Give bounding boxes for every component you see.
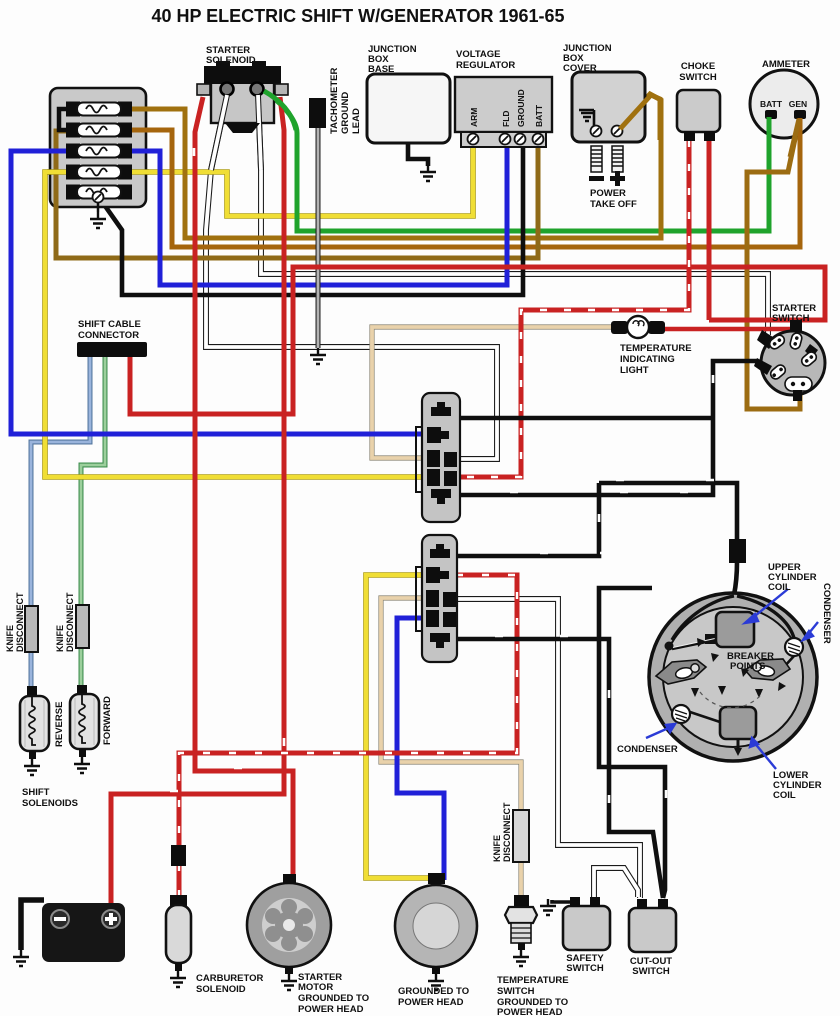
regulator terminal labels <box>469 89 544 127</box>
wire brown fuse2-right to ammeter GEN <box>131 116 800 247</box>
svg-text:SWITCH: SWITCH <box>566 963 604 974</box>
arrow to lower coil <box>753 741 776 769</box>
wire red choke switch right to starter switch <box>707 140 712 320</box>
connector C1 bracket <box>416 427 421 492</box>
starter solenoid top cap <box>204 66 281 84</box>
condenser left <box>690 712 720 722</box>
wire light green shift cable connector to forward solenoid <box>81 357 105 689</box>
svg-text:BASE: BASE <box>368 64 394 75</box>
power head motor stem and ground <box>432 966 440 974</box>
svg-text:BATT: BATT <box>534 104 544 127</box>
svg-text:POWER: POWER <box>590 188 626 199</box>
wire black safety switch to ground <box>552 900 574 902</box>
reverse solenoid coil <box>29 697 36 745</box>
C1 pin tan pair <box>427 450 440 467</box>
battery positive terminal <box>102 910 120 928</box>
starter solenoid right bolt <box>275 84 288 95</box>
svg-text:KNIFE: KNIFE <box>55 625 65 652</box>
svg-text:GROUNDED TO: GROUNDED TO <box>398 986 469 997</box>
LABELS-BOTTOM <box>196 562 832 1016</box>
svg-text:CHOKE: CHOKE <box>681 61 715 72</box>
svg-text:BATT: BATT <box>760 99 783 109</box>
svg-text:POWER HEAD: POWER HEAD <box>497 1007 563 1016</box>
inline connector on carburetor solenoid wire <box>171 845 186 866</box>
svg-text:VOLTAGE: VOLTAGE <box>456 49 501 60</box>
starter motor terminal <box>283 874 296 884</box>
svg-text:GROUND: GROUND <box>340 92 351 134</box>
magneto entry wires <box>672 596 794 640</box>
power head motor terminal <box>428 873 445 884</box>
fuse block ground <box>90 212 106 228</box>
fuse F1 <box>66 102 132 117</box>
condenser right <box>772 656 794 680</box>
svg-text:KNIFE: KNIFE <box>5 625 15 652</box>
C2 pin tan pair <box>426 590 439 607</box>
fuse block body <box>50 88 146 207</box>
wire black ignition net connector C1 to starter switch and magneto <box>456 361 757 595</box>
carburetor solenoid stem and ground <box>175 963 182 971</box>
wire black battery negative to ground <box>21 900 44 950</box>
wire green ammeter BATT to starter solenoid <box>264 91 769 231</box>
reverse solenoid cap <box>27 686 37 697</box>
svg-text:LEAD: LEAD <box>351 108 362 134</box>
battery ground <box>13 950 29 966</box>
wire blue fuse3-right to regulator FLD <box>131 143 507 285</box>
wire white starter solenoid left to connector C1 pin3 <box>206 95 497 459</box>
fuse block ground screw <box>93 192 104 203</box>
wire black connector C1 top pin lead <box>448 416 713 421</box>
temperature switch hex <box>505 907 537 923</box>
wire red starter solenoid left to starter motor <box>195 97 293 876</box>
power head motor housing <box>395 885 477 967</box>
cut-out switch body <box>629 908 676 952</box>
wire black junction box base lead <box>408 143 428 166</box>
svg-text:GROUNDED TO: GROUNDED TO <box>298 993 369 1004</box>
svg-text:CONNECTOR: CONNECTOR <box>78 330 139 341</box>
connector C2 body <box>422 535 457 662</box>
svg-text:CONDENSER: CONDENSER <box>821 583 832 644</box>
wire white starter solenoid right to starter switch <box>258 95 768 335</box>
safety switch body <box>563 906 610 950</box>
svg-text:DISCONNECT: DISCONNECT <box>502 802 512 862</box>
starter switch rotor <box>761 331 825 395</box>
wire yellow connector C2 pin1 to power-head motor <box>366 575 436 878</box>
wire hop marks <box>170 148 714 803</box>
wire yellow fuse4-left to connector C1 pin4 <box>45 172 430 477</box>
wire blue fuse3-left to connector C1 pin2 <box>11 151 430 434</box>
LABELS-TOP <box>151 6 810 210</box>
wire brown fuse2-left to regulator BATT <box>56 131 538 258</box>
temperature indicating light bulb <box>627 316 649 338</box>
knife disconnect forward <box>76 605 89 648</box>
C2 pin yellow-red <box>426 567 440 583</box>
starter switch bottom stem <box>793 390 802 401</box>
starter solenoid bottom lug <box>225 123 260 133</box>
starter solenoid wire overlays <box>211 91 296 170</box>
svg-text:CARBURETOR: CARBURETOR <box>196 973 264 984</box>
temperature light left cap <box>611 321 628 334</box>
lower coil dashed arc <box>700 692 760 708</box>
starter switch terminal wedge white <box>757 330 776 349</box>
starter switch terminal top-right pill <box>789 332 803 350</box>
magneto inner plate <box>663 607 803 747</box>
lower cylinder coil <box>720 707 756 739</box>
fuse F5 <box>66 185 132 200</box>
C1 pin blue <box>427 427 441 443</box>
svg-text:SHIFT CABLE: SHIFT CABLE <box>78 319 141 330</box>
starter switch terminal right pill <box>800 350 819 368</box>
wire blue connector C2 pin4 to power-head motor <box>397 618 444 880</box>
knife disconnect reverse <box>25 606 38 652</box>
arrow to left condenser <box>646 726 673 738</box>
C1 pin top <box>431 407 451 416</box>
power take off plus <box>610 176 625 181</box>
C1 pin bottom <box>431 489 451 498</box>
svg-text:REVERSE: REVERSE <box>54 702 65 747</box>
ammeter wire overlays <box>767 117 772 139</box>
svg-text:POWER HEAD: POWER HEAD <box>298 1004 364 1015</box>
temperature switch threads <box>511 923 531 943</box>
svg-text:MOTOR: MOTOR <box>298 982 333 993</box>
upper cylinder coil <box>716 612 754 647</box>
starter solenoid terminal right <box>251 83 264 96</box>
blue annotation arrows <box>646 589 818 769</box>
temperature switch cap <box>514 895 529 909</box>
junction box cover body <box>572 72 645 142</box>
fuse block wire overlays <box>47 109 149 210</box>
svg-text:KNIFE: KNIFE <box>492 835 502 862</box>
wire yellow fuse4-right to regulator ARM <box>131 143 473 216</box>
fuse F2 <box>66 123 132 138</box>
svg-text:TEMPERATURE: TEMPERATURE <box>497 975 569 986</box>
wire red striped choke switch to connector C1 pin4 <box>456 140 689 477</box>
svg-text:SOLENOID: SOLENOID <box>196 984 246 995</box>
breaker points right <box>745 659 790 680</box>
svg-text:SOLENOIDS: SOLENOIDS <box>22 798 78 809</box>
forward solenoid stem and ground <box>79 749 86 757</box>
wire brown ammeter GEN to starter switch bottom <box>747 120 800 409</box>
svg-text:COIL: COIL <box>768 582 791 593</box>
C2 pin top <box>430 549 450 558</box>
choke switch terminals <box>684 131 695 141</box>
wire white connector C2 pin3 to cut-out switch <box>456 599 640 898</box>
wire red battery positive to starter solenoid and key switch <box>111 97 284 908</box>
regulator screw ARM <box>468 134 479 145</box>
power take off minus <box>589 176 604 181</box>
regulator screw FLD <box>500 134 511 145</box>
wire light blue shift cable connector to reverse solenoid <box>31 357 90 690</box>
ammeter dial <box>750 70 818 138</box>
forward solenoid cap <box>77 685 87 696</box>
starter solenoid body <box>211 80 274 123</box>
magneto plug <box>729 539 746 563</box>
starter motor gear <box>265 899 313 951</box>
junction box cover screw 2 <box>612 126 623 137</box>
wire red shift cable connector to starter switch via top bus <box>130 267 825 414</box>
svg-text:DISCONNECT: DISCONNECT <box>15 592 25 652</box>
safety switch terminals <box>570 897 580 907</box>
tachometer lead cap <box>309 98 326 128</box>
svg-text:CONDENSER: CONDENSER <box>617 744 678 755</box>
starter switch terminal right stub <box>805 344 818 358</box>
C1 pin yellow pair <box>427 469 440 486</box>
svg-text:POINTS: POINTS <box>730 661 765 672</box>
temperature light right cap <box>648 321 665 334</box>
ammeter terminal GEN <box>794 110 806 119</box>
starter solenoid left bolt <box>197 84 210 95</box>
forward solenoid coil <box>79 695 86 743</box>
temperature switch stem and ground <box>518 943 525 950</box>
wire red temperature light to starter switch <box>664 329 797 331</box>
reverse solenoid stem and ground <box>29 751 36 759</box>
starter switch terminal left stub <box>754 358 772 375</box>
ammeter terminal BATT <box>765 110 777 119</box>
wire tan connector C2 pin3 to temperature switch <box>381 598 521 908</box>
starter solenoid terminal left <box>221 83 234 96</box>
starter motor housing <box>247 883 331 967</box>
wire tan temperature light to connector C1 pin3 <box>372 327 612 458</box>
power head motor inner <box>413 903 459 949</box>
battery body <box>42 903 125 962</box>
wire gray tachometer ground lead <box>316 125 321 348</box>
svg-text:POWER HEAD: POWER HEAD <box>398 997 464 1008</box>
carburetor solenoid body <box>166 905 191 963</box>
svg-text:TAKE OFF: TAKE OFF <box>590 199 637 210</box>
svg-text:SWITCH: SWITCH <box>632 966 670 977</box>
junction box cover screw 1 <box>591 126 602 137</box>
svg-text:GEN: GEN <box>789 99 807 109</box>
svg-text:REGULATOR: REGULATOR <box>456 60 515 71</box>
svg-text:SWITCH: SWITCH <box>772 313 810 324</box>
shift cable connector block <box>77 342 147 357</box>
starter switch terminal left pill <box>769 363 788 381</box>
C2 pin bottom <box>430 633 450 642</box>
svg-text:GROUND: GROUND <box>516 89 526 127</box>
svg-text:INDICATING: INDICATING <box>620 354 675 365</box>
voltage regulator body <box>455 77 552 132</box>
arrow to upper coil <box>750 589 788 620</box>
battery negative terminal <box>51 910 69 928</box>
svg-text:SWITCH: SWITCH <box>497 986 535 997</box>
svg-text:COIL: COIL <box>773 790 796 801</box>
connector C1 body <box>422 393 460 522</box>
fuse F4 <box>66 165 132 180</box>
regulator screw GROUND <box>515 134 526 145</box>
svg-text:SOLENOID: SOLENOID <box>206 55 256 66</box>
svg-text:FORWARD: FORWARD <box>102 696 113 745</box>
breaker points left <box>656 660 706 684</box>
choke switch body <box>677 90 720 132</box>
wire black kill net connector C2 to cut-out switch and magneto <box>456 588 665 898</box>
connector C2 bracket <box>416 567 421 631</box>
starter motor stem and ground <box>285 966 293 974</box>
small ground beside safety switch <box>540 899 556 915</box>
magneto outer ring <box>649 593 817 761</box>
power take off ribbed leads <box>591 146 623 172</box>
wire black fuse block ground to regulator GROUND <box>103 143 523 295</box>
forward solenoid body <box>70 694 99 749</box>
starter switch terminal top-left pill <box>768 333 787 351</box>
svg-text:COVER: COVER <box>563 63 597 74</box>
reverse solenoid body <box>20 696 49 751</box>
svg-text:TEMPERATURE: TEMPERATURE <box>620 343 692 354</box>
fuse jumper strap fuse1 to fuse2 <box>59 109 68 130</box>
regulator screw BATT <box>533 134 544 145</box>
LABELS-MIDDLE <box>5 303 816 809</box>
wire red striped connector C2 pin1 to carburetor solenoid <box>179 575 517 898</box>
wire white safety switch to cut-out switch <box>594 868 638 900</box>
arrow to right condenser <box>805 622 818 638</box>
svg-text:LIGHT: LIGHT <box>620 365 649 376</box>
svg-text:SHIFT: SHIFT <box>22 787 50 798</box>
svg-text:ARM: ARM <box>469 108 479 127</box>
tachometer ground <box>310 348 326 364</box>
junction box base ground <box>420 165 436 181</box>
wire brown overlay across cover to screw 2 <box>620 95 660 140</box>
svg-text:SWITCH: SWITCH <box>679 72 717 83</box>
svg-text:AMMETER: AMMETER <box>762 59 810 70</box>
starter motor inner <box>262 898 316 952</box>
fuse F3 <box>66 144 132 159</box>
junction box cover internal ground <box>579 110 594 128</box>
starter switch terminal bottom pill <box>785 377 812 391</box>
C2 pin blue pair <box>426 610 439 627</box>
junction box base body <box>367 74 450 143</box>
cut-out switch terminals <box>637 899 647 909</box>
svg-text:40 HP ELECTRIC SHIFT W/GENERAT: 40 HP ELECTRIC SHIFT W/GENERATOR 1961-65 <box>151 6 564 26</box>
breaker point arrows <box>691 638 786 756</box>
wire brown fuse1-right to junction box cover <box>131 94 661 238</box>
svg-text:FLD: FLD <box>501 110 511 127</box>
carburetor solenoid cap <box>170 895 187 907</box>
svg-text:DISCONNECT: DISCONNECT <box>65 592 75 652</box>
svg-text:TACHOMETER: TACHOMETER <box>329 68 340 134</box>
knife disconnect temperature <box>513 810 529 862</box>
starter switch terminal top-right nub <box>790 320 802 332</box>
